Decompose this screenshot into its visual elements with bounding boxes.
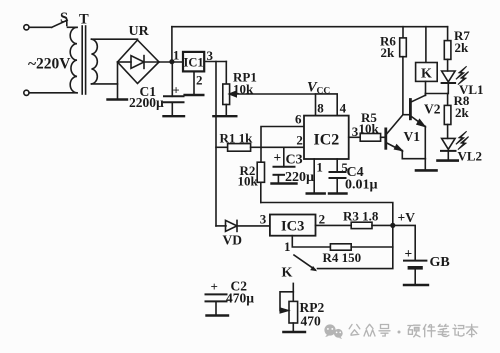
capacitor C1 bbox=[164, 84, 184, 117]
wire junction to IC2 pin2 bbox=[261, 146, 304, 148]
svg-text:10k: 10k bbox=[238, 174, 259, 189]
resistor R7 bbox=[444, 27, 451, 71]
ground C4 bbox=[329, 192, 347, 194]
svg-text:IC2: IC2 bbox=[314, 132, 340, 149]
diode VD bbox=[216, 220, 270, 231]
svg-text:1: 1 bbox=[316, 160, 323, 175]
svg-text:2200µ: 2200µ bbox=[129, 95, 164, 110]
transistor V2 bbox=[403, 94, 425, 159]
svg-text:UR: UR bbox=[129, 24, 150, 39]
transformer core bbox=[82, 26, 85, 94]
svg-text:2k: 2k bbox=[381, 45, 396, 60]
ground bbox=[108, 98, 128, 100]
svg-text:8: 8 bbox=[317, 101, 324, 116]
svg-text:VD: VD bbox=[223, 233, 243, 248]
wire node down to C1 bbox=[171, 62, 173, 97]
transformer T primary winding bbox=[70, 27, 77, 93]
wire node up to top rail bbox=[171, 27, 173, 62]
terminal bottom-left bbox=[24, 90, 29, 95]
resistor R8 bbox=[444, 94, 451, 139]
Vcc label bbox=[307, 80, 330, 97]
ground GB bbox=[404, 284, 428, 286]
svg-text:CC: CC bbox=[317, 87, 331, 97]
svg-text:+V: +V bbox=[398, 210, 416, 225]
watermark icon bbox=[324, 324, 342, 339]
svg-text:~220V: ~220V bbox=[28, 56, 71, 73]
transformer T secondary winding bbox=[92, 39, 98, 84]
svg-text:+: + bbox=[405, 246, 413, 261]
label C2 bbox=[226, 279, 254, 306]
wire V2 collector to VL1/R8 junction bbox=[425, 93, 447, 95]
IC2 bbox=[304, 116, 349, 159]
wire IC1 pin3 bbox=[204, 61, 226, 63]
wire junction up / pin6 wire bbox=[261, 127, 304, 148]
wire bridge left vertex down bbox=[117, 62, 119, 100]
wire bbox=[29, 92, 77, 94]
ground V1 V2 bbox=[416, 169, 437, 172]
svg-text:0.01µ: 0.01µ bbox=[345, 178, 378, 193]
svg-text:2: 2 bbox=[196, 73, 203, 88]
capacitor C4 bbox=[330, 172, 346, 194]
svg-text:IC3: IC3 bbox=[281, 219, 304, 235]
svg-text:T: T bbox=[79, 12, 89, 28]
switch K contact bbox=[294, 255, 316, 271]
ground VL2 bbox=[438, 159, 458, 162]
node bridge output bbox=[169, 59, 174, 64]
svg-text:V1: V1 bbox=[404, 129, 421, 144]
svg-text:220µ: 220µ bbox=[285, 170, 314, 185]
ground C3 bbox=[272, 182, 297, 184]
svg-text:2k: 2k bbox=[455, 105, 470, 120]
wire emitters to ground bbox=[424, 159, 426, 171]
ground RP2 bbox=[283, 331, 305, 333]
wire bridge to IC1 bbox=[159, 61, 183, 63]
ground RP1 bbox=[213, 115, 236, 117]
svg-text:R3 1.8: R3 1.8 bbox=[343, 209, 379, 224]
svg-text:S: S bbox=[60, 10, 68, 26]
label C1 bbox=[129, 84, 164, 110]
capacitor C2 bbox=[206, 279, 227, 316]
wire IC3 pin2 to R3 bbox=[316, 224, 352, 226]
svg-text:C3: C3 bbox=[286, 153, 303, 168]
wire rail down from pin3 bbox=[215, 62, 217, 226]
IC2 pin1 wire bbox=[313, 159, 315, 194]
svg-text:1: 1 bbox=[284, 239, 291, 254]
label RP2 bbox=[300, 300, 325, 329]
label RP1 bbox=[233, 70, 257, 97]
svg-text:10k: 10k bbox=[233, 82, 254, 97]
svg-text:1: 1 bbox=[173, 48, 180, 63]
watermark text (vector CJK) bbox=[349, 324, 478, 337]
label C4 bbox=[345, 165, 378, 193]
svg-text:VL2: VL2 bbox=[458, 148, 483, 163]
svg-text:2: 2 bbox=[319, 212, 326, 227]
resistor R2 bbox=[257, 147, 264, 202]
svg-text:K: K bbox=[421, 67, 432, 82]
label R7 bbox=[454, 28, 470, 55]
label R6 bbox=[380, 34, 396, 61]
svg-text:+: + bbox=[211, 279, 218, 294]
IC3 bbox=[270, 215, 316, 236]
svg-text:470µ: 470µ bbox=[226, 291, 254, 306]
label R2 bbox=[238, 163, 259, 189]
resistor R4 bbox=[330, 244, 392, 250]
wire bbox=[29, 26, 52, 28]
ground C1 bbox=[164, 115, 185, 117]
potentiometer RP1 bbox=[223, 62, 316, 117]
svg-text:6: 6 bbox=[295, 112, 302, 127]
bridge rectifier UR bbox=[118, 40, 160, 84]
wire top rail bbox=[172, 26, 448, 28]
label R5 bbox=[359, 110, 380, 136]
svg-text:2: 2 bbox=[296, 132, 303, 147]
svg-text:+: + bbox=[274, 150, 282, 165]
ground IC2 pin1 bbox=[307, 192, 325, 194]
relay K bbox=[416, 27, 438, 96]
ground IC1 bbox=[185, 94, 204, 96]
svg-text:R1 1k: R1 1k bbox=[220, 131, 254, 146]
wire +V node down to R4/K wire bbox=[318, 225, 393, 268]
wire secondary bottom bbox=[92, 83, 118, 85]
resistor R3 bbox=[351, 222, 393, 228]
label R8 bbox=[454, 93, 470, 120]
resistor R6 bbox=[400, 27, 407, 115]
terminal top-left bbox=[24, 25, 29, 30]
svg-text:K: K bbox=[282, 266, 293, 281]
node +V bbox=[390, 223, 395, 228]
resistor R5 bbox=[349, 134, 386, 142]
battery GB bbox=[404, 246, 426, 285]
svg-text:IC1: IC1 bbox=[184, 55, 204, 69]
wire node to battery bbox=[393, 225, 415, 260]
potentiometer RP2 bbox=[280, 283, 298, 332]
IC1 bbox=[183, 52, 204, 72]
switch S bbox=[52, 20, 77, 27]
IC3 pin1 wire bbox=[292, 236, 330, 247]
label C3 bbox=[274, 150, 315, 185]
svg-text:3: 3 bbox=[260, 212, 267, 227]
svg-text:4: 4 bbox=[340, 101, 347, 116]
LED VL2 bbox=[441, 131, 469, 160]
pin 5 wire bbox=[336, 159, 338, 172]
wire secondary top to bridge bbox=[92, 38, 138, 41]
svg-text:470: 470 bbox=[301, 314, 322, 329]
svg-text:10k: 10k bbox=[359, 121, 380, 136]
svg-text:2k: 2k bbox=[455, 40, 470, 55]
LED VL1 bbox=[442, 66, 469, 93]
wire R2 bottom to +V bbox=[261, 203, 393, 226]
svg-text:GB: GB bbox=[430, 255, 450, 270]
resistor R1 bbox=[216, 144, 261, 152]
ground C2 bbox=[207, 314, 229, 316]
svg-text:V2: V2 bbox=[424, 102, 441, 117]
transistor V1 bbox=[386, 115, 426, 159]
capacitor C3 bbox=[274, 147, 295, 183]
IC1 pin 2 wire bbox=[193, 71, 195, 95]
wire Vcc to pins 8 and 4 bbox=[316, 94, 338, 116]
svg-text:R4 150: R4 150 bbox=[323, 250, 362, 265]
